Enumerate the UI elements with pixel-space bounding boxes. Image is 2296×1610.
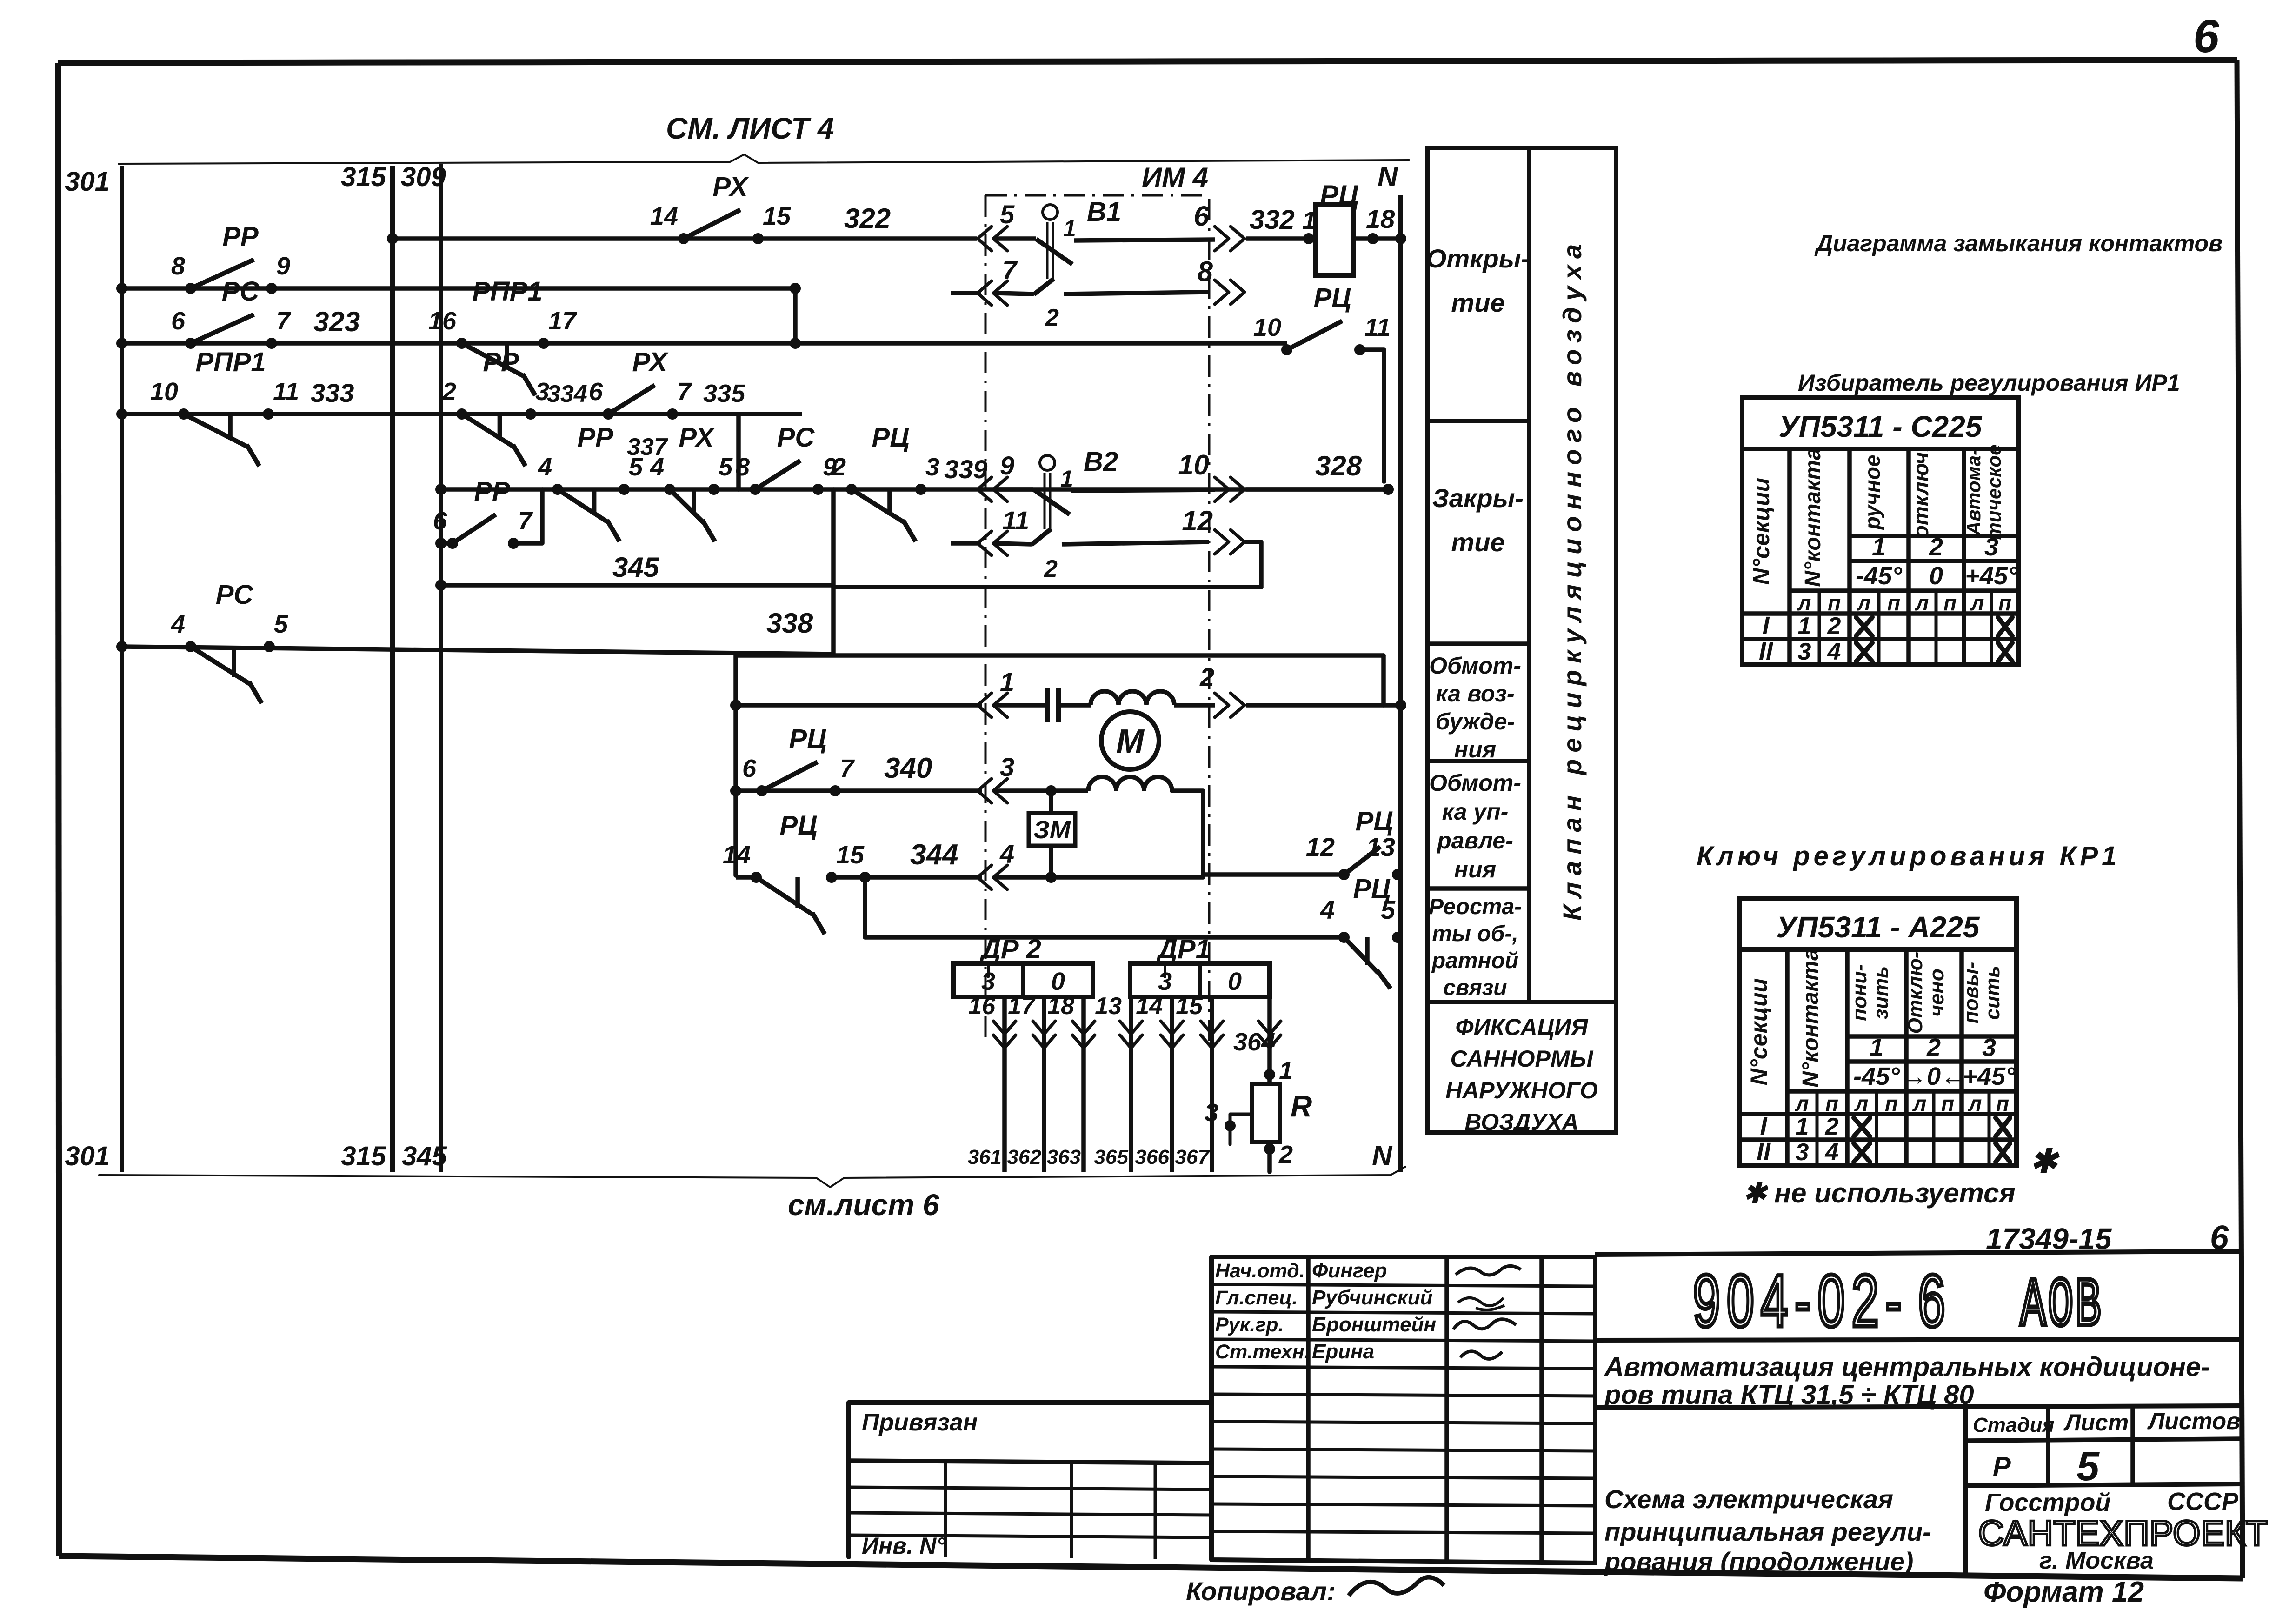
svg-text:п: п bbox=[1943, 591, 1957, 615]
svg-text:п: п bbox=[1998, 591, 2011, 615]
svg-text:СМ. ЛИСТ 4: СМ. ЛИСТ 4 bbox=[666, 112, 834, 145]
svg-text:2: 2 bbox=[1199, 662, 1214, 692]
svg-text:АОВ: АОВ bbox=[2020, 1268, 2103, 1346]
svg-text:РХ: РХ bbox=[632, 347, 668, 377]
svg-text:6: 6 bbox=[742, 755, 757, 782]
svg-text:САННОРМЫ: САННОРМЫ bbox=[1450, 1046, 1593, 1072]
svg-text:В2: В2 bbox=[1084, 447, 1118, 477]
svg-text:повы-: повы- bbox=[1960, 962, 1983, 1024]
svg-text:7: 7 bbox=[677, 378, 692, 406]
svg-text:328: 328 bbox=[1315, 450, 1362, 481]
svg-text:2: 2 bbox=[1045, 304, 1059, 331]
svg-text:РПР1: РПР1 bbox=[195, 347, 266, 377]
svg-text:→0←: →0← bbox=[1902, 1062, 1966, 1090]
svg-text:16: 16 bbox=[428, 307, 457, 335]
svg-text:2: 2 bbox=[442, 378, 456, 406]
svg-text:Бронштейн: Бронштейн bbox=[1312, 1313, 1436, 1336]
svg-text:5: 5 bbox=[2076, 1443, 2100, 1489]
svg-text:2: 2 bbox=[1827, 613, 1841, 640]
svg-text:Избиратель регулирования ИР1: Избиратель регулирования ИР1 bbox=[1798, 370, 2180, 396]
svg-text:тие: тие bbox=[1451, 288, 1504, 317]
svg-text:ратной: ратной bbox=[1431, 949, 1518, 973]
svg-text:I: I bbox=[1760, 1112, 1767, 1140]
svg-text:Отклю-: Отклю- bbox=[1904, 952, 1927, 1034]
svg-text:п: п bbox=[1996, 1091, 2009, 1116]
svg-text:315: 315 bbox=[341, 162, 386, 192]
svg-text:367: 367 bbox=[1175, 1146, 1211, 1169]
svg-text:НАРУЖНОГО: НАРУЖНОГО bbox=[1445, 1077, 1598, 1103]
svg-text:335: 335 bbox=[703, 380, 745, 408]
svg-text:РЦ: РЦ bbox=[1314, 283, 1351, 313]
svg-text:ДР 2: ДР 2 bbox=[979, 934, 1041, 964]
svg-text:332: 332 bbox=[1250, 205, 1295, 235]
svg-text:тическое: тическое bbox=[1983, 444, 2005, 540]
svg-text:см.лист 6: см.лист 6 bbox=[788, 1188, 939, 1222]
svg-text:РЦ: РЦ bbox=[1320, 180, 1359, 211]
svg-text:Реоста-: Реоста- bbox=[1429, 895, 1522, 919]
svg-text:365: 365 bbox=[1094, 1146, 1129, 1169]
svg-text:РР: РР bbox=[474, 476, 510, 507]
svg-text:РР: РР bbox=[483, 347, 519, 377]
svg-text:УП5311 - А225: УП5311 - А225 bbox=[1777, 910, 1980, 944]
svg-text:N°секции: N°секции bbox=[1746, 978, 1772, 1085]
svg-text:РС: РС bbox=[777, 422, 815, 453]
svg-text:2: 2 bbox=[1044, 555, 1058, 582]
svg-text:Рук.гр.: Рук.гр. bbox=[1215, 1314, 1284, 1336]
svg-text:Рубчинский: Рубчинский bbox=[1312, 1286, 1433, 1309]
svg-text:ты об-,: ты об-, bbox=[1432, 922, 1518, 946]
svg-text:15: 15 bbox=[763, 202, 791, 230]
svg-text:тие: тие bbox=[1451, 528, 1504, 557]
svg-text:344: 344 bbox=[910, 839, 958, 871]
svg-text:18: 18 bbox=[1047, 993, 1074, 1020]
svg-text:17: 17 bbox=[1008, 993, 1036, 1020]
svg-text:ка воз-: ка воз- bbox=[1436, 681, 1514, 707]
svg-text:г. Москва: г. Москва bbox=[2039, 1547, 2154, 1574]
svg-text:Р: Р bbox=[1993, 1451, 2011, 1482]
svg-text:334: 334 bbox=[547, 381, 587, 408]
svg-text:3: 3 bbox=[1000, 752, 1014, 782]
svg-text:338: 338 bbox=[766, 608, 813, 639]
svg-text:10: 10 bbox=[1253, 314, 1281, 341]
svg-text:Стадия: Стадия bbox=[1973, 1414, 2054, 1436]
svg-text:л: л bbox=[1970, 591, 1984, 615]
svg-text:6: 6 bbox=[1918, 1259, 1945, 1342]
svg-text:Клапан рециркуляционного возду: Клапан рециркуляционного воздуха bbox=[1557, 238, 1587, 921]
svg-text:340: 340 bbox=[884, 752, 932, 784]
svg-text:Копировал:: Копировал: bbox=[1186, 1577, 1336, 1606]
svg-text:15: 15 bbox=[1176, 993, 1203, 1020]
svg-text:Обмот-: Обмот- bbox=[1429, 653, 1521, 679]
svg-text:РЦ: РЦ bbox=[1356, 806, 1393, 836]
svg-text:Обмот-: Обмот- bbox=[1429, 770, 1521, 796]
svg-text:-45°: -45° bbox=[1856, 562, 1902, 590]
svg-text:322: 322 bbox=[844, 203, 891, 234]
svg-text:3: 3 bbox=[1984, 533, 1998, 561]
svg-text:РПР1: РПР1 bbox=[472, 276, 542, 307]
svg-text:2: 2 bbox=[832, 453, 846, 481]
svg-text:РР: РР bbox=[577, 422, 613, 453]
svg-text:3: 3 bbox=[1205, 1099, 1218, 1127]
svg-text:принципиальная регули-: принципиальная регули- bbox=[1604, 1517, 1931, 1546]
svg-text:5: 5 bbox=[1000, 200, 1015, 229]
svg-text:РС: РС bbox=[222, 276, 260, 307]
svg-text:4: 4 bbox=[650, 453, 664, 481]
svg-text:8: 8 bbox=[171, 252, 185, 280]
svg-text:ИМ 4: ИМ 4 bbox=[1142, 162, 1208, 193]
svg-text:Ключ регулирования КР1: Ключ регулирования КР1 bbox=[1697, 841, 2120, 871]
svg-text:п: п bbox=[1941, 1091, 1954, 1116]
svg-text:1: 1 bbox=[1060, 466, 1073, 492]
svg-text:11: 11 bbox=[1002, 506, 1029, 535]
svg-text:п: п bbox=[1828, 591, 1841, 615]
svg-text:13: 13 bbox=[1095, 993, 1122, 1020]
svg-text:Автоматизация центральных кон: Автоматизация центральных кондиционе- bbox=[1604, 1352, 2210, 1382]
svg-text:п: п bbox=[1825, 1091, 1838, 1116]
svg-text:II: II bbox=[1757, 1138, 1771, 1166]
svg-text:N°контакта: N°контакта bbox=[1798, 948, 1823, 1088]
svg-text:3: 3 bbox=[1796, 1139, 1809, 1166]
svg-text:л: л bbox=[1968, 1091, 1982, 1116]
svg-text:11: 11 bbox=[273, 378, 299, 406]
svg-text:N°контакта: N°контакта bbox=[1801, 448, 1825, 587]
svg-text:Диаграмма замыкания контактов: Диаграмма замыкания контактов bbox=[1814, 230, 2223, 256]
svg-text:6: 6 bbox=[1194, 200, 1210, 232]
svg-text:+45°: +45° bbox=[1963, 1062, 2016, 1090]
svg-text:339: 339 bbox=[944, 454, 987, 484]
svg-text:R: R bbox=[1291, 1089, 1312, 1123]
svg-text:1: 1 bbox=[1000, 667, 1014, 696]
svg-text:Листов: Листов bbox=[2147, 1408, 2240, 1434]
svg-text:10: 10 bbox=[1178, 449, 1209, 481]
svg-text:РХ: РХ bbox=[679, 422, 715, 453]
svg-text:1: 1 bbox=[1279, 1057, 1293, 1085]
svg-text:14: 14 bbox=[723, 841, 751, 869]
svg-text:5: 5 bbox=[274, 610, 288, 638]
svg-text:6: 6 bbox=[2193, 10, 2220, 62]
svg-text:связи: связи bbox=[1443, 975, 1507, 1000]
svg-text:СССР: СССР bbox=[2167, 1488, 2239, 1516]
svg-text:РЦ: РЦ bbox=[780, 810, 818, 841]
svg-text:7: 7 bbox=[1002, 255, 1018, 285]
svg-text:зить: зить bbox=[1870, 966, 1892, 1020]
svg-text:8: 8 bbox=[1198, 256, 1213, 287]
svg-text:Формат 12: Формат 12 bbox=[1983, 1576, 2144, 1608]
svg-text:УП5311 - С225: УП5311 - С225 bbox=[1779, 410, 1983, 443]
svg-text:✱ не используется: ✱ не используется bbox=[1743, 1177, 2016, 1209]
svg-text:13: 13 bbox=[1366, 832, 1395, 862]
svg-text:345: 345 bbox=[612, 552, 660, 583]
svg-text:п: п bbox=[1885, 1091, 1898, 1116]
svg-text:Гл.спец.: Гл.спец. bbox=[1215, 1287, 1298, 1309]
svg-text:Ерина: Ерина bbox=[1312, 1340, 1374, 1363]
svg-text:ВОЗДУХА: ВОЗДУХА bbox=[1464, 1109, 1578, 1135]
svg-text:ручное: ручное bbox=[1860, 455, 1884, 531]
svg-text:Закры-: Закры- bbox=[1432, 483, 1524, 513]
svg-text:2: 2 bbox=[1278, 1141, 1293, 1169]
svg-text:366: 366 bbox=[1135, 1146, 1170, 1169]
svg-text:2: 2 bbox=[1825, 1113, 1839, 1140]
svg-text:РР: РР bbox=[222, 221, 259, 252]
svg-text:315: 315 bbox=[341, 1141, 386, 1171]
svg-text:361: 361 bbox=[968, 1146, 1002, 1169]
svg-text:Схема электрическая: Схема электрическая bbox=[1604, 1484, 1893, 1514]
svg-text:10: 10 bbox=[150, 378, 178, 406]
svg-text:17: 17 bbox=[548, 307, 578, 335]
svg-text:Нач.отд.: Нач.отд. bbox=[1215, 1260, 1305, 1282]
svg-text:ния: ния bbox=[1454, 856, 1496, 882]
svg-text:0: 0 bbox=[1051, 968, 1065, 995]
svg-text:309: 309 bbox=[401, 162, 446, 192]
svg-text:чено: чено bbox=[1925, 969, 1948, 1017]
svg-text:5: 5 bbox=[719, 453, 733, 481]
svg-text:пони-: пони- bbox=[1848, 964, 1871, 1021]
svg-text:9: 9 bbox=[1000, 451, 1014, 480]
svg-text:сить: сить bbox=[1981, 966, 2004, 1020]
svg-text:л: л bbox=[1854, 1091, 1869, 1116]
svg-text:4: 4 bbox=[1320, 895, 1335, 924]
svg-text:4: 4 bbox=[1827, 638, 1841, 665]
svg-text:бужде-: бужде- bbox=[1436, 708, 1515, 735]
svg-text:2: 2 bbox=[1929, 533, 1943, 561]
svg-text:N: N bbox=[1378, 161, 1398, 192]
svg-text:6: 6 bbox=[589, 378, 603, 406]
svg-text:л: л bbox=[1912, 1091, 1927, 1116]
svg-text:N: N bbox=[1372, 1140, 1393, 1171]
svg-text:Привязан: Привязан bbox=[862, 1409, 978, 1436]
svg-text:РХ: РХ bbox=[712, 172, 749, 202]
svg-text:Госстрой: Госстрой bbox=[1985, 1489, 2110, 1516]
svg-text:3: 3 bbox=[1798, 638, 1811, 665]
svg-text:4: 4 bbox=[1825, 1139, 1839, 1166]
svg-text:РЦ: РЦ bbox=[789, 724, 827, 754]
svg-text:Автома-: Автома- bbox=[1963, 449, 1984, 536]
svg-text:ров типа КТЦ 31,5 ÷ КТЦ 80: ров типа КТЦ 31,5 ÷ КТЦ 80 bbox=[1604, 1380, 1974, 1410]
svg-text:1: 1 bbox=[1870, 1034, 1883, 1062]
svg-text:904-02-: 904-02- bbox=[1693, 1259, 1908, 1342]
svg-text:363: 363 bbox=[1047, 1146, 1081, 1169]
svg-text:6: 6 bbox=[171, 307, 186, 335]
svg-text:323: 323 bbox=[313, 306, 360, 337]
svg-text:М: М bbox=[1116, 723, 1145, 760]
svg-text:11: 11 bbox=[1364, 314, 1391, 341]
svg-text:7: 7 bbox=[840, 755, 855, 782]
svg-text:301: 301 bbox=[65, 167, 110, 197]
svg-text:л: л bbox=[1915, 591, 1929, 615]
svg-text:равле-: равле- bbox=[1436, 828, 1513, 854]
svg-text:333: 333 bbox=[311, 378, 354, 408]
svg-text:8: 8 bbox=[736, 453, 750, 481]
svg-text:-45°: -45° bbox=[1853, 1062, 1900, 1090]
svg-text:РЦ: РЦ bbox=[1353, 874, 1391, 904]
svg-text:II: II bbox=[1759, 637, 1773, 665]
svg-text:4: 4 bbox=[538, 453, 552, 481]
svg-text:2: 2 bbox=[1926, 1034, 1941, 1062]
svg-text:Инв. N°: Инв. N° bbox=[862, 1533, 946, 1559]
svg-text:I: I bbox=[1762, 612, 1770, 640]
svg-text:7: 7 bbox=[518, 507, 533, 535]
svg-text:+45°: +45° bbox=[1965, 562, 2018, 590]
svg-text:16: 16 bbox=[968, 993, 996, 1020]
svg-text:1: 1 bbox=[1796, 1113, 1809, 1140]
svg-text:14: 14 bbox=[1136, 993, 1163, 1020]
svg-text:3: 3 bbox=[925, 453, 939, 481]
svg-text:В1: В1 bbox=[1087, 197, 1121, 227]
svg-text:9: 9 bbox=[276, 252, 290, 280]
svg-text:3: 3 bbox=[1982, 1034, 1996, 1062]
svg-text:Фингер: Фингер bbox=[1312, 1259, 1387, 1282]
svg-text:РЦ: РЦ bbox=[872, 422, 910, 453]
svg-text:1: 1 bbox=[1063, 215, 1076, 241]
svg-text:15: 15 bbox=[836, 841, 865, 869]
svg-text:345: 345 bbox=[402, 1141, 447, 1171]
svg-text:7: 7 bbox=[276, 307, 292, 335]
svg-text:л: л bbox=[1795, 1091, 1809, 1116]
svg-text:л: л bbox=[1857, 591, 1871, 615]
svg-text:л: л bbox=[1797, 591, 1811, 615]
svg-text:1: 1 bbox=[1798, 613, 1811, 640]
svg-text:✱: ✱ bbox=[2030, 1143, 2060, 1179]
svg-text:0: 0 bbox=[1228, 968, 1242, 995]
svg-text:4: 4 bbox=[171, 610, 185, 638]
svg-text:ДР1: ДР1 bbox=[1156, 934, 1211, 964]
svg-text:14: 14 bbox=[650, 202, 678, 230]
svg-text:рования (продолжение): рования (продолжение) bbox=[1604, 1547, 1913, 1576]
svg-text:Ст.техн.: Ст.техн. bbox=[1215, 1341, 1310, 1363]
svg-text:6: 6 bbox=[433, 507, 447, 535]
svg-text:18: 18 bbox=[1366, 204, 1395, 234]
svg-text:12: 12 bbox=[1306, 832, 1335, 862]
svg-text:ФИКСАЦИЯ: ФИКСАЦИЯ bbox=[1456, 1014, 1589, 1040]
svg-text:362: 362 bbox=[1007, 1146, 1042, 1169]
svg-text:п: п bbox=[1887, 591, 1900, 615]
svg-text:N°секции: N°секции bbox=[1748, 478, 1774, 585]
svg-text:301: 301 bbox=[65, 1141, 110, 1171]
svg-text:Лист: Лист bbox=[2063, 1410, 2129, 1436]
svg-text:ка уп-: ка уп- bbox=[1442, 799, 1509, 825]
svg-text:0: 0 bbox=[1929, 562, 1943, 590]
svg-text:ния: ния bbox=[1454, 736, 1496, 762]
svg-text:4: 4 bbox=[999, 839, 1014, 868]
svg-text:РС: РС bbox=[216, 580, 254, 610]
svg-text:1: 1 bbox=[1872, 533, 1886, 561]
svg-text:Откры-: Откры- bbox=[1426, 244, 1530, 273]
svg-text:364: 364 bbox=[1233, 1028, 1275, 1056]
svg-text:ЗМ: ЗМ bbox=[1033, 816, 1071, 844]
svg-text:отключ.: отключ. bbox=[1909, 446, 1933, 539]
